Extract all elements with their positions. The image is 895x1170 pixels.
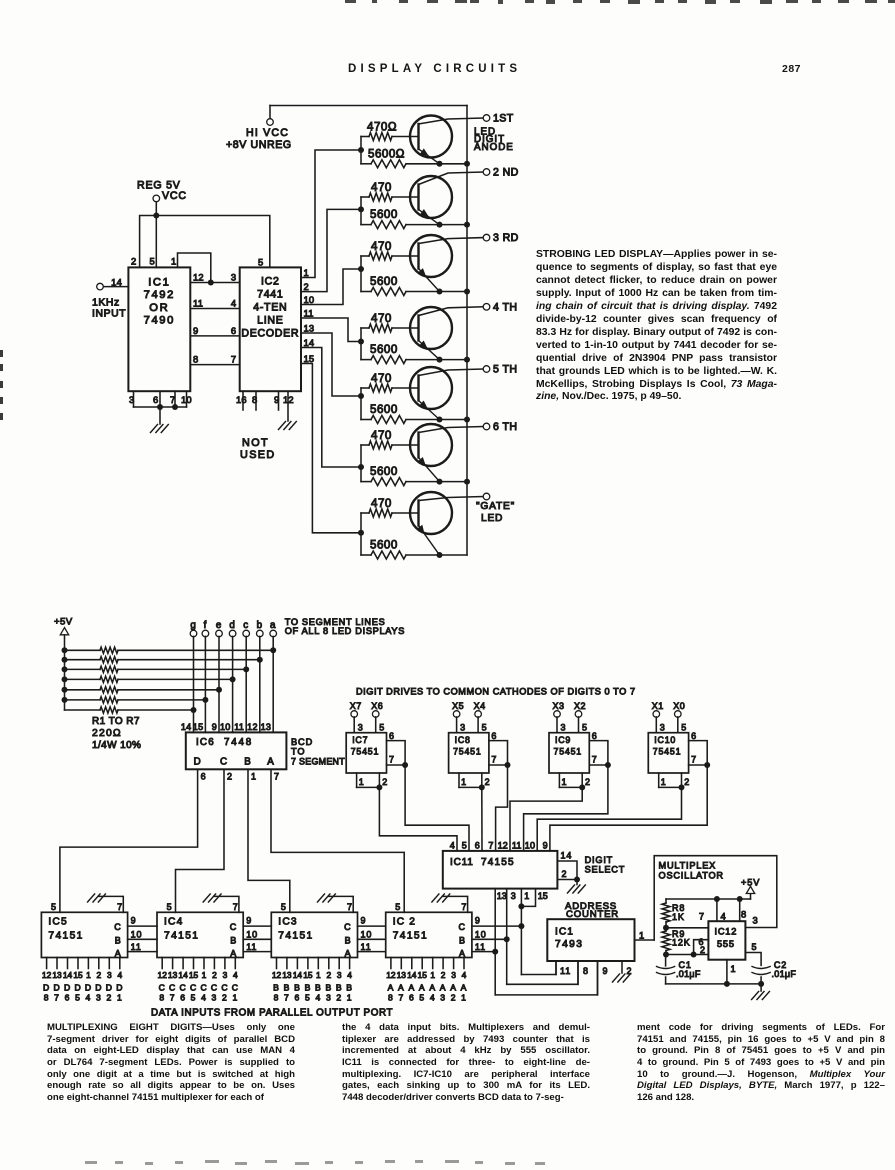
svg-text:TO: TO	[291, 747, 305, 757]
svg-text:10: 10	[181, 394, 192, 405]
svg-text:B: B	[284, 983, 291, 993]
svg-text:7: 7	[231, 354, 237, 365]
svg-text:1: 1	[461, 993, 467, 1003]
svg-text:7: 7	[347, 902, 353, 912]
svg-text:11: 11	[475, 942, 486, 952]
svg-text:470: 470	[371, 312, 392, 325]
svg-text:75451: 75451	[453, 747, 481, 757]
svg-text:IC3: IC3	[278, 917, 297, 928]
svg-text:1: 1	[430, 970, 435, 980]
svg-text:6: 6	[153, 394, 159, 405]
svg-text:7 SEGMENT: 7 SEGMENT	[291, 757, 345, 767]
svg-text:2: 2	[326, 970, 331, 980]
svg-text:7: 7	[170, 993, 176, 1003]
svg-text:6 TH: 6 TH	[493, 421, 517, 433]
svg-text:A: A	[459, 948, 466, 958]
svg-text:IC10: IC10	[654, 735, 676, 745]
svg-text:9: 9	[543, 841, 548, 851]
svg-text:OF ALL 8 LED DISPLAYS: OF ALL 8 LED DISPLAYS	[285, 626, 405, 636]
svg-text:A: A	[461, 983, 468, 993]
svg-text:2: 2	[382, 777, 388, 787]
svg-text:IC12: IC12	[715, 927, 738, 937]
svg-text:5: 5	[258, 257, 264, 268]
svg-text:5: 5	[167, 902, 173, 912]
svg-text:X7: X7	[350, 701, 362, 711]
svg-text:4: 4	[117, 970, 122, 980]
svg-text:470Ω: 470Ω	[367, 121, 397, 134]
svg-text:2: 2	[700, 945, 706, 955]
svg-text:7: 7	[398, 993, 404, 1003]
svg-text:12: 12	[498, 841, 508, 851]
svg-text:3 RD: 3 RD	[493, 232, 519, 244]
svg-text:7493: 7493	[555, 939, 583, 950]
svg-text:2: 2	[627, 966, 633, 976]
svg-text:B: B	[336, 983, 343, 993]
svg-text:5: 5	[395, 902, 401, 912]
svg-text:IC1: IC1	[555, 927, 574, 938]
svg-text:11: 11	[131, 942, 142, 952]
svg-text:4: 4	[86, 993, 92, 1003]
svg-text:4: 4	[231, 298, 237, 309]
svg-text:X1: X1	[652, 701, 664, 711]
svg-text:74151: 74151	[278, 931, 313, 942]
svg-text:HI VCC: HI VCC	[246, 127, 289, 139]
svg-text:75451: 75451	[653, 747, 681, 757]
svg-text:15: 15	[193, 722, 204, 732]
svg-text:A: A	[345, 948, 352, 958]
svg-text:USED: USED	[240, 449, 276, 461]
svg-text:7: 7	[699, 912, 705, 922]
svg-text:C: C	[458, 922, 465, 932]
svg-text:B: B	[230, 935, 237, 945]
svg-text:13: 13	[52, 970, 62, 980]
svg-text:X2: X2	[574, 701, 586, 711]
svg-text:6: 6	[231, 325, 237, 336]
svg-text:1: 1	[347, 993, 353, 1003]
svg-text:1: 1	[316, 970, 321, 980]
svg-text:10: 10	[361, 929, 373, 939]
svg-text:A: A	[398, 983, 405, 993]
svg-text:5: 5	[150, 256, 156, 267]
svg-text:7: 7	[389, 755, 395, 765]
svg-text:8: 8	[388, 993, 394, 1003]
svg-text:2: 2	[336, 993, 342, 1003]
svg-text:X4: X4	[474, 701, 486, 711]
svg-text:INPUT: INPUT	[92, 309, 126, 320]
svg-text:12: 12	[158, 970, 168, 980]
svg-text:IC9: IC9	[555, 735, 571, 745]
svg-text:2: 2	[227, 772, 233, 782]
svg-text:5: 5	[51, 902, 57, 912]
svg-text:OR: OR	[149, 302, 169, 314]
svg-text:1K: 1K	[672, 912, 685, 922]
svg-text:B: B	[273, 983, 280, 993]
svg-text:LINE: LINE	[257, 315, 283, 327]
svg-text:15: 15	[418, 970, 428, 980]
svg-text:5600: 5600	[370, 403, 398, 416]
svg-text:2: 2	[451, 993, 457, 1003]
svg-text:X6: X6	[371, 701, 383, 711]
svg-text:7441: 7441	[257, 289, 283, 301]
svg-text:555: 555	[717, 939, 735, 949]
svg-text:1/4W 10%: 1/4W 10%	[92, 740, 141, 751]
svg-text:1: 1	[86, 970, 91, 980]
svg-text:3: 3	[753, 915, 759, 926]
svg-text:2: 2	[96, 970, 101, 980]
svg-text:2: 2	[304, 281, 309, 292]
svg-text:C: C	[159, 983, 166, 993]
svg-text:1: 1	[562, 777, 568, 787]
svg-text:DATA INPUTS FROM PARALLEL O: DATA INPUTS FROM PARALLEL OUTPUT PORT	[151, 1008, 393, 1019]
svg-text:B: B	[115, 935, 122, 945]
svg-text:+8V UNREG: +8V UNREG	[226, 139, 292, 151]
svg-text:4: 4	[233, 970, 238, 980]
svg-text:14: 14	[407, 970, 417, 980]
svg-text:6: 6	[592, 731, 598, 741]
svg-text:4: 4	[462, 970, 467, 980]
svg-text:IC5: IC5	[48, 917, 67, 928]
svg-text:9: 9	[361, 916, 367, 926]
svg-text:11: 11	[246, 942, 257, 952]
svg-text:3: 3	[451, 970, 456, 980]
svg-text:3: 3	[460, 723, 466, 733]
svg-text:3: 3	[337, 970, 342, 980]
svg-text:13: 13	[397, 970, 407, 980]
svg-text:C: C	[190, 983, 197, 993]
svg-text:14: 14	[111, 277, 122, 288]
svg-text:7: 7	[491, 755, 497, 765]
svg-text:5: 5	[752, 942, 758, 952]
svg-text:12: 12	[386, 970, 396, 980]
svg-text:3: 3	[440, 993, 446, 1003]
svg-text:SELECT: SELECT	[585, 865, 626, 875]
svg-text:470: 470	[371, 497, 392, 510]
svg-text:470: 470	[371, 372, 392, 385]
svg-text:8: 8	[741, 909, 747, 920]
svg-text:5600: 5600	[370, 539, 398, 552]
svg-text:8: 8	[44, 993, 50, 1003]
svg-text:C: C	[114, 922, 121, 932]
svg-text:13: 13	[282, 970, 292, 980]
svg-text:A: A	[267, 757, 274, 768]
svg-text:75451: 75451	[554, 747, 582, 757]
svg-text:6: 6	[491, 731, 497, 741]
svg-text:10: 10	[304, 294, 315, 305]
svg-text:15: 15	[304, 353, 315, 364]
svg-text:B: B	[325, 983, 332, 993]
svg-text:3: 3	[223, 970, 228, 980]
svg-text:5: 5	[379, 723, 385, 733]
svg-text:4: 4	[450, 841, 455, 851]
svg-text:14: 14	[63, 970, 73, 980]
svg-text:g: g	[190, 620, 196, 631]
svg-text:1: 1	[232, 993, 238, 1003]
svg-text:a: a	[270, 620, 276, 631]
svg-text:IC2: IC2	[261, 276, 280, 288]
svg-text:C: C	[180, 983, 187, 993]
svg-text:8: 8	[274, 993, 280, 1003]
svg-text:C: C	[220, 757, 228, 768]
svg-text:5: 5	[482, 723, 488, 733]
svg-text:4: 4	[347, 970, 352, 980]
svg-text:75451: 75451	[351, 747, 379, 757]
svg-text:7: 7	[461, 902, 467, 912]
svg-text:DIGIT DRIVES TO COMMON CATHO: DIGIT DRIVES TO COMMON CATHODES OF DIGIT…	[356, 687, 636, 697]
svg-text:4: 4	[721, 911, 727, 922]
svg-text:6: 6	[180, 993, 186, 1003]
svg-text:7: 7	[117, 902, 123, 912]
svg-text:B: B	[459, 935, 466, 945]
svg-text:9: 9	[212, 722, 217, 732]
svg-text:2: 2	[684, 777, 690, 787]
svg-text:B: B	[244, 757, 251, 768]
svg-text:D: D	[64, 983, 71, 993]
svg-text:DIGIT: DIGIT	[585, 855, 614, 865]
svg-text:9: 9	[274, 394, 280, 405]
svg-text:13: 13	[168, 970, 178, 980]
svg-text:D: D	[74, 983, 81, 993]
svg-text:D: D	[43, 983, 50, 993]
svg-text:12: 12	[42, 970, 52, 980]
svg-text:1ST: 1ST	[493, 113, 514, 125]
svg-text:5600: 5600	[370, 275, 398, 288]
svg-text:IC 2: IC 2	[393, 917, 416, 928]
svg-text:X5: X5	[452, 701, 464, 711]
svg-text:2: 2	[441, 970, 446, 980]
svg-text:12: 12	[247, 722, 258, 732]
svg-text:IC4: IC4	[164, 917, 183, 928]
svg-text:74151: 74151	[393, 931, 428, 942]
svg-text:1: 1	[461, 777, 467, 787]
svg-text:6: 6	[691, 731, 697, 741]
svg-text:.01μF: .01μF	[676, 969, 701, 979]
svg-text:7: 7	[592, 755, 598, 765]
svg-text:e: e	[216, 620, 222, 631]
svg-text:A: A	[408, 983, 415, 993]
svg-text:6: 6	[409, 993, 415, 1003]
svg-text:5: 5	[281, 902, 287, 912]
svg-text:74151: 74151	[164, 931, 199, 942]
svg-text:5: 5	[75, 993, 81, 1003]
svg-text:12: 12	[193, 272, 204, 283]
svg-text:A: A	[230, 948, 237, 958]
svg-text:6: 6	[65, 993, 71, 1003]
svg-text:2: 2	[562, 869, 568, 879]
svg-text:11: 11	[512, 841, 522, 851]
svg-text:2: 2	[585, 777, 591, 787]
svg-text:220Ω: 220Ω	[92, 728, 122, 739]
svg-text:C: C	[221, 983, 228, 993]
svg-text:B: B	[345, 935, 352, 945]
svg-text:1: 1	[202, 970, 207, 980]
svg-text:A: A	[440, 983, 447, 993]
svg-text:5600: 5600	[370, 208, 398, 221]
svg-text:B: B	[346, 983, 353, 993]
svg-text:D: D	[85, 983, 92, 993]
svg-text:2: 2	[212, 970, 217, 980]
svg-text:4 TH: 4 TH	[493, 301, 517, 313]
svg-text:6: 6	[295, 993, 301, 1003]
svg-text:10: 10	[475, 929, 487, 939]
svg-text:DECODER: DECODER	[241, 328, 299, 340]
svg-text:8: 8	[193, 354, 198, 365]
svg-text:R1 TO R7: R1 TO R7	[92, 716, 140, 727]
svg-text:LED: LED	[481, 513, 503, 524]
svg-text:COUNTER: COUNTER	[566, 909, 619, 920]
svg-text:8: 8	[583, 966, 589, 976]
svg-text:2: 2	[485, 777, 491, 787]
svg-text:14: 14	[293, 970, 303, 980]
svg-text:6: 6	[201, 772, 207, 782]
svg-text:11: 11	[560, 966, 571, 976]
svg-text:C: C	[169, 983, 176, 993]
svg-text:9: 9	[246, 916, 252, 926]
svg-text:9: 9	[603, 966, 609, 976]
svg-text:3: 3	[96, 993, 102, 1003]
svg-text:5: 5	[582, 723, 588, 733]
svg-text:D: D	[116, 983, 123, 993]
svg-text:1: 1	[359, 777, 365, 787]
svg-text:7448: 7448	[224, 737, 253, 748]
svg-text:9: 9	[475, 916, 481, 926]
svg-text:2: 2	[106, 993, 112, 1003]
svg-text:6: 6	[475, 841, 480, 851]
svg-text:1: 1	[639, 930, 645, 941]
svg-text:C: C	[230, 922, 237, 932]
svg-text:VCC: VCC	[162, 190, 187, 202]
svg-text:16: 16	[236, 394, 247, 405]
svg-text:4: 4	[201, 993, 207, 1003]
svg-text:2: 2	[222, 993, 228, 1003]
svg-text:"GATE": "GATE"	[476, 501, 515, 512]
svg-text:14: 14	[304, 337, 315, 348]
svg-text:470: 470	[371, 240, 392, 253]
svg-text:C: C	[232, 983, 239, 993]
svg-text:11: 11	[234, 722, 244, 732]
svg-text:A: A	[419, 983, 426, 993]
svg-text:13: 13	[261, 722, 272, 732]
svg-text:7: 7	[54, 993, 60, 1003]
svg-text:A: A	[388, 983, 395, 993]
svg-text:1: 1	[731, 964, 737, 974]
svg-text:IC7: IC7	[352, 735, 368, 745]
svg-text:12: 12	[272, 970, 282, 980]
svg-text:5: 5	[305, 993, 311, 1003]
svg-text:A: A	[429, 983, 436, 993]
svg-text:10: 10	[131, 929, 143, 939]
svg-text:4: 4	[315, 993, 321, 1003]
svg-text:10: 10	[246, 929, 258, 939]
svg-text:1: 1	[117, 993, 123, 1003]
svg-text:3: 3	[358, 723, 364, 733]
svg-text:2 ND: 2 ND	[493, 167, 519, 179]
svg-text:D: D	[95, 983, 102, 993]
svg-text:74155: 74155	[481, 857, 515, 868]
svg-text:1: 1	[251, 772, 257, 782]
svg-text:c: c	[243, 620, 249, 631]
svg-text:3: 3	[231, 272, 237, 283]
svg-text:7: 7	[488, 841, 493, 851]
svg-text:D: D	[53, 983, 60, 993]
svg-text:5: 5	[681, 723, 687, 733]
svg-text:470: 470	[371, 429, 392, 442]
svg-text:13: 13	[304, 323, 315, 334]
svg-text:11: 11	[193, 298, 203, 309]
svg-text:2: 2	[131, 256, 137, 267]
svg-text:3: 3	[129, 394, 135, 405]
svg-text:D: D	[194, 757, 202, 768]
svg-text:5 TH: 5 TH	[493, 364, 517, 376]
svg-text:IC6: IC6	[196, 737, 215, 748]
svg-text:OSCILLATOR: OSCILLATOR	[659, 871, 724, 881]
svg-text:6: 6	[389, 731, 395, 741]
svg-text:470: 470	[371, 181, 392, 194]
svg-text:f: f	[204, 620, 208, 631]
svg-text:7: 7	[691, 755, 697, 765]
svg-text:15: 15	[303, 970, 313, 980]
svg-text:ANODE: ANODE	[474, 142, 514, 153]
svg-text:B: B	[294, 983, 301, 993]
svg-text:b: b	[257, 620, 263, 631]
svg-text:A: A	[450, 983, 457, 993]
svg-text:8: 8	[252, 394, 258, 405]
svg-text:10: 10	[220, 722, 231, 732]
svg-text:9: 9	[193, 325, 198, 336]
svg-text:3: 3	[660, 723, 666, 733]
svg-text:+5V: +5V	[741, 878, 760, 888]
svg-text:7490: 7490	[144, 315, 175, 327]
svg-text:14: 14	[178, 970, 188, 980]
svg-text:7: 7	[233, 902, 239, 912]
svg-text:1KHz: 1KHz	[92, 298, 120, 309]
svg-text:11: 11	[361, 942, 372, 952]
svg-text:5600: 5600	[370, 343, 398, 356]
svg-text:13: 13	[497, 891, 507, 901]
svg-text:9: 9	[131, 916, 137, 926]
svg-text:IC1: IC1	[148, 277, 170, 289]
svg-text:d: d	[229, 620, 235, 631]
svg-text:B: B	[305, 983, 312, 993]
svg-text:3: 3	[326, 993, 332, 1003]
svg-text:5: 5	[191, 993, 197, 1003]
svg-text:C: C	[344, 922, 351, 932]
svg-text:14: 14	[561, 851, 573, 861]
svg-text:3: 3	[561, 723, 567, 733]
svg-text:5: 5	[419, 993, 425, 1003]
svg-text:12: 12	[283, 394, 294, 405]
svg-text:1: 1	[304, 267, 309, 278]
svg-text:+5V: +5V	[54, 617, 73, 628]
svg-text:15: 15	[538, 891, 548, 901]
svg-text:5600Ω: 5600Ω	[368, 147, 405, 160]
svg-text:3: 3	[212, 993, 218, 1003]
svg-text:8: 8	[159, 993, 165, 1003]
svg-text:10: 10	[525, 841, 535, 851]
svg-text:5600: 5600	[370, 465, 398, 478]
svg-text:12K: 12K	[672, 938, 691, 948]
svg-text:7: 7	[284, 993, 290, 1003]
svg-text:B: B	[315, 983, 322, 993]
svg-text:74151: 74151	[48, 931, 83, 942]
svg-text:IC8: IC8	[455, 735, 471, 745]
svg-text:IC11: IC11	[450, 857, 474, 868]
svg-text:7492: 7492	[144, 289, 175, 301]
svg-text:X3: X3	[553, 701, 565, 711]
svg-text:15: 15	[73, 970, 83, 980]
svg-text:14: 14	[181, 722, 192, 732]
svg-text:MULTIPLEX: MULTIPLEX	[659, 861, 717, 871]
svg-text:1: 1	[171, 256, 177, 267]
